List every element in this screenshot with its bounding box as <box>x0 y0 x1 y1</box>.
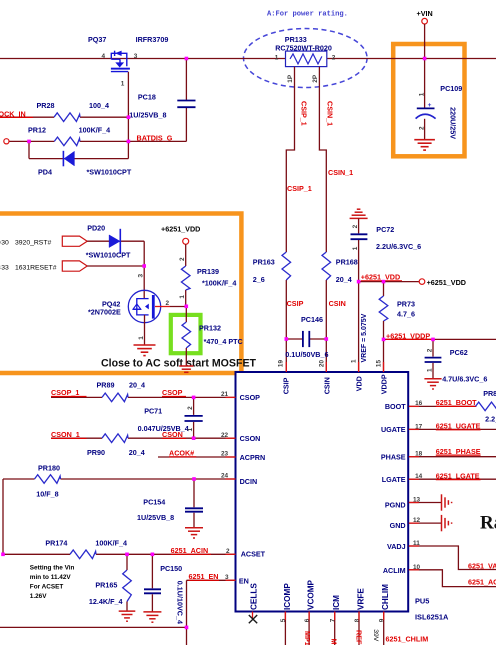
wire CSIP_1 from PR133 pin 1P <box>286 67 294 252</box>
capacitor PC146 <box>286 338 302 340</box>
svg-text:2: 2 <box>187 406 194 410</box>
svg-text:20_4: 20_4 <box>129 381 145 390</box>
capacitor PC72 <box>358 218 360 233</box>
svg-text:2P: 2P <box>312 74 319 83</box>
svg-text:BOOT: BOOT <box>385 402 406 411</box>
resistor PR90 <box>102 434 128 443</box>
wire ACOK# stub y=457 <box>158 456 236 458</box>
wire VCOMP drop x=309.1 <box>308 612 310 645</box>
svg-text:PC109: PC109 <box>440 84 462 93</box>
svg-text:PR168: PR168 <box>336 258 358 267</box>
svg-text:CSIP: CSIP <box>287 299 304 308</box>
svg-text:5: 5 <box>280 618 287 622</box>
dashed blue ellipse around PR133 <box>243 29 367 88</box>
svg-text:2: 2 <box>179 257 186 261</box>
svg-text:12.4K/F_4: 12.4K/F_4 <box>89 597 123 606</box>
svg-text:220U/25V: 220U/25V <box>449 107 458 139</box>
capacitor PC18 <box>177 100 195 102</box>
svg-text:*2N7002E: *2N7002E <box>88 308 121 317</box>
wire +6251_VDD row y=281.6 <box>359 281 420 283</box>
svg-text:CSIN: CSIN <box>322 377 331 394</box>
svg-text:Close to AC soft start MOSFET: Close to AC soft start MOSFET <box>101 358 257 370</box>
svg-text:1: 1 <box>275 55 279 62</box>
svg-text:ICM: ICM <box>332 595 341 610</box>
svg-text:PU5: PU5 <box>415 597 429 606</box>
wire PQ42 gate to PR132 node <box>155 306 170 308</box>
svg-text:CSIP_1: CSIP_1 <box>287 184 312 193</box>
svg-text:19: 19 <box>277 360 284 368</box>
svg-text:+6251_VDD: +6251_VDD <box>427 278 466 287</box>
svg-text:CELLS: CELLS <box>249 583 258 610</box>
svg-text:0.1U/50VB_6: 0.1U/50VB_6 <box>285 350 328 359</box>
svg-text:PR139: PR139 <box>197 267 219 276</box>
svg-text:100K/F_4: 100K/F_4 <box>95 538 127 547</box>
svg-text:0.1U/10VC_4: 0.1U/10VC_4 <box>175 581 184 624</box>
svg-text:2.2_4: 2.2_4 <box>485 414 496 423</box>
svg-text:CSIP_1: CSIP_1 <box>300 101 309 126</box>
svg-text:1: 1 <box>121 81 125 88</box>
wire 6251_ACIN row y=554.3 <box>3 553 70 555</box>
ground (PC72, inverted) <box>350 209 368 218</box>
svg-text:PR180: PR180 <box>38 463 60 472</box>
svg-text:REF: REF <box>355 630 364 645</box>
svg-text:1.26V: 1.26V <box>30 593 47 600</box>
resistor PR168 <box>322 252 331 280</box>
svg-text:3: 3 <box>134 53 138 60</box>
wire PR12 row y=141.4 <box>9 140 54 142</box>
svg-text:PHASE: PHASE <box>381 453 406 462</box>
wire bottom rail y=627.4 <box>0 626 187 628</box>
svg-text:1: 1 <box>179 295 186 299</box>
red pin stubs: IC left <box>226 397 236 580</box>
svg-text:PR163: PR163 <box>253 258 275 267</box>
wire PC18 vertical x=186.4 <box>185 59 187 101</box>
svg-text:M: M <box>330 639 339 645</box>
svg-text:PQ37: PQ37 <box>88 35 106 44</box>
green highlight box around PR132 <box>171 315 201 353</box>
svg-text:CSIP: CSIP <box>281 377 290 394</box>
wire GND stub y=523.1 <box>409 522 442 524</box>
svg-text:15: 15 <box>376 360 383 368</box>
ground (PR165) <box>119 611 136 621</box>
wire CHLIM drop x=383.7 <box>383 612 385 645</box>
diode PD4 <box>62 151 64 167</box>
svg-text:Ra: Ra <box>480 513 496 534</box>
wire PHASE row y=456.7 <box>409 456 496 458</box>
wire UGATE row y=429.4 <box>409 428 496 430</box>
capacitor PC62 <box>432 339 434 356</box>
resistor PR163 <box>282 252 291 280</box>
capacitor PC154 <box>193 479 195 507</box>
resistor PR174 <box>70 550 96 559</box>
resistor PR133 with box <box>286 51 327 67</box>
svg-text:20_4: 20_4 <box>336 275 352 284</box>
svg-text:DCIN: DCIN <box>240 477 258 486</box>
svg-text:6251_ACLIM: 6251_ACLIM <box>468 578 496 587</box>
svg-text:6251_CHLIM: 6251_CHLIM <box>386 635 429 644</box>
svg-text:1: 1 <box>351 359 358 363</box>
wire CSON row y=438.2 <box>51 437 102 439</box>
terminal +6251_VDD (right) <box>419 279 425 285</box>
svg-text:8: 8 <box>354 618 361 622</box>
resistor PR139 <box>181 266 190 290</box>
wire CSOP row y=397.4 <box>51 396 102 398</box>
svg-text:IRFR3709: IRFR3709 <box>136 35 169 44</box>
svg-text:3: 3 <box>138 274 145 278</box>
svg-text:VCOMP: VCOMP <box>307 579 316 610</box>
svg-text:BATDIS_G: BATDIS_G <box>137 133 173 142</box>
svg-text:20: 20 <box>318 360 325 368</box>
ground (PC109) <box>414 140 435 150</box>
svg-text:For ACSET: For ACSET <box>30 583 64 590</box>
wire PQ42 gate drop x=144.2 <box>143 241 145 298</box>
svg-text:VADJ: VADJ <box>387 542 406 551</box>
svg-text:GND: GND <box>390 521 406 530</box>
wire VADJ route <box>409 546 496 570</box>
svg-text:9: 9 <box>379 618 386 622</box>
wire left rail x=3 <box>2 479 4 554</box>
svg-text:2: 2 <box>427 348 434 352</box>
svg-text:PR132: PR132 <box>199 323 221 332</box>
svg-text:20_4: 20_4 <box>129 448 145 457</box>
no-connect X at CELLS pin <box>252 612 254 619</box>
wire LGATE row y=479.2 <box>409 478 496 480</box>
svg-text:3920_RST#: 3920_RST# <box>15 240 51 247</box>
svg-text:6: 6 <box>304 618 311 622</box>
svg-text:PC71: PC71 <box>144 406 162 415</box>
svg-text:6251_VADJ: 6251_VADJ <box>468 561 496 570</box>
svg-text:PC154: PC154 <box>143 497 165 506</box>
resistor PR73 <box>383 282 385 296</box>
transistor PQ42 (2N7002E) <box>128 290 160 322</box>
resistor PR28 <box>54 113 80 122</box>
wire main +VIN rail y=58.5 <box>0 58 496 60</box>
svg-text:PR12: PR12 <box>28 125 46 134</box>
red pin stubs: IC bottom <box>285 612 383 621</box>
svg-text:2_6: 2_6 <box>253 275 265 284</box>
wire PD20 row y=241.2 <box>87 240 144 242</box>
svg-text:PC62: PC62 <box>450 348 468 357</box>
svg-text:100K/F_4: 100K/F_4 <box>79 125 111 134</box>
svg-text:PR133: PR133 <box>285 35 307 44</box>
wire PD4 branch y=158.6 <box>28 141 30 158</box>
svg-text:*470_4 PTC: *470_4 PTC <box>204 337 243 346</box>
wire PQ42 source down <box>144 315 146 345</box>
resistor PR165 <box>126 554 128 570</box>
svg-text:1: 1 <box>138 336 145 340</box>
svg-text:UGATE: UGATE <box>381 425 406 434</box>
wire BOOT row y=406.4 <box>409 405 476 407</box>
svg-text:PR90: PR90 <box>87 448 105 457</box>
svg-text:ICOMP: ICOMP <box>283 583 292 610</box>
svg-text:PR73: PR73 <box>397 300 415 309</box>
svg-text:+VIN: +VIN <box>417 9 433 18</box>
wire ACLIM route <box>409 570 496 587</box>
wire ICM drop x=334.7 <box>334 612 336 645</box>
svg-text:A:For power rating.: A:For power rating. <box>267 11 348 19</box>
wire PQ37 gate vertical x=128.4 <box>127 72 129 159</box>
wire PGND stub y=502.5 <box>409 502 442 504</box>
ground (PC150) <box>143 612 161 622</box>
svg-text:PD20: PD20 <box>87 224 105 233</box>
svg-text:1P: 1P <box>287 74 294 83</box>
svg-text:VDD: VDD <box>355 376 364 391</box>
resistor PR81 (partial) <box>476 402 496 411</box>
op-amp/controller U5 ISL6251A body <box>236 372 409 612</box>
svg-text:30: 30 <box>1 240 9 247</box>
wire PR28 DOCK_IN y=117.2 <box>0 116 54 118</box>
svg-text:7: 7 <box>330 618 337 622</box>
svg-text:CSIN: CSIN <box>329 299 346 308</box>
svg-text:EN: EN <box>239 576 249 585</box>
svg-text:PC150: PC150 <box>160 564 182 573</box>
ground (GND, rotated) <box>442 515 452 531</box>
svg-text:CSON: CSON <box>162 430 183 439</box>
svg-text:ACPRN: ACPRN <box>240 453 266 462</box>
red pin stubs: IC right <box>409 406 419 569</box>
svg-text:PR28: PR28 <box>37 101 55 110</box>
svg-text:*100K/F_4: *100K/F_4 <box>202 279 236 288</box>
svg-text:PC72: PC72 <box>376 225 394 234</box>
svg-text:33: 33 <box>1 265 9 272</box>
wire ICOMP drop x=285.4 <box>284 612 286 645</box>
capacitor PC71 <box>193 397 195 415</box>
svg-text:1U/25VB_8: 1U/25VB_8 <box>137 513 174 522</box>
svg-text:ISL6251A: ISL6251A <box>415 613 449 622</box>
svg-text:4: 4 <box>102 53 106 60</box>
svg-text:CSON: CSON <box>240 434 261 443</box>
svg-text:CSON_1: CSON_1 <box>51 430 80 439</box>
wire VRFE drop x=359 <box>358 612 360 645</box>
ground (PC154) <box>185 528 203 538</box>
wire PR139 column x=185.7 <box>185 244 187 266</box>
svg-text:39V: 39V <box>372 629 379 642</box>
terminal (PR12 left) <box>4 139 9 144</box>
svg-text:6251_ACIN: 6251_ACIN <box>171 546 209 555</box>
svg-text:CSIN_1: CSIN_1 <box>326 101 335 126</box>
resistor PR132 <box>185 306 187 322</box>
ground (PGND, rotated) <box>442 494 452 510</box>
svg-text:CSIN_1: CSIN_1 <box>328 168 353 177</box>
svg-text:RC7520WT-R020: RC7520WT-R020 <box>275 44 332 53</box>
ground (PQ42 source) <box>134 345 156 356</box>
svg-text:CSOP: CSOP <box>240 393 261 402</box>
wire +VIN down <box>424 24 426 108</box>
svg-text:2.2U/6.3VC_6: 2.2U/6.3VC_6 <box>376 242 421 251</box>
wire 1631RESET# row y=266 <box>87 265 144 267</box>
svg-text:2: 2 <box>352 224 359 228</box>
svg-text:PGND: PGND <box>385 500 406 509</box>
diode PD20 <box>109 235 120 248</box>
ground (PC62) <box>424 379 441 389</box>
resistor PR180 <box>35 475 61 484</box>
svg-text:2: 2 <box>166 300 170 307</box>
svg-text:6251_BOOT: 6251_BOOT <box>436 398 477 407</box>
svg-text:1: 1 <box>187 428 194 432</box>
svg-text:1631RESET#: 1631RESET# <box>15 265 57 272</box>
svg-text:PR174: PR174 <box>45 538 67 547</box>
svg-text:ACLIM: ACLIM <box>383 566 406 575</box>
svg-text:PR165: PR165 <box>95 581 117 590</box>
orange highlight box around PC109 <box>393 44 464 156</box>
svg-text:PC18: PC18 <box>138 93 156 102</box>
wire DCIN row y=479 <box>3 478 35 480</box>
wire EN drop x=186.5 <box>186 580 188 645</box>
svg-text:MP1: MP1 <box>303 631 312 645</box>
svg-text:Setting the Vin: Setting the Vin <box>30 564 75 571</box>
wire CSIN_1 from PR133 pin 2P <box>319 67 326 252</box>
wire +6251_VDDP row y=339.4 <box>384 338 496 340</box>
svg-text:PD4: PD4 <box>38 168 52 177</box>
svg-text:VREF = 5.075V: VREF = 5.075V <box>361 313 368 362</box>
svg-text:1: 1 <box>418 92 425 96</box>
svg-text:2: 2 <box>332 55 336 62</box>
svg-text:VRFE: VRFE <box>356 588 365 610</box>
capacitor PC150 <box>151 554 153 588</box>
svg-text:*SW1010CPT: *SW1010CPT <box>87 168 132 177</box>
svg-text:*SW1010CPT: *SW1010CPT <box>86 251 131 260</box>
svg-text:10/F_8: 10/F_8 <box>36 490 58 499</box>
svg-text:PR89: PR89 <box>97 381 115 390</box>
svg-text:6251_EN: 6251_EN <box>189 572 219 581</box>
svg-text:1U/25VB_8: 1U/25VB_8 <box>129 110 166 119</box>
svg-text:LGATE: LGATE <box>382 475 406 484</box>
svg-text:4.7_6: 4.7_6 <box>397 309 415 318</box>
svg-text:CHLIM: CHLIM <box>381 584 390 610</box>
resistor PR12 <box>54 137 80 146</box>
svg-text:min to 11.42V: min to 11.42V <box>30 574 72 581</box>
svg-text:PC146: PC146 <box>301 315 323 324</box>
svg-text:100_4: 100_4 <box>89 101 109 110</box>
ground (PR132) <box>179 366 193 372</box>
svg-text:ACSET: ACSET <box>241 550 266 559</box>
junction node dots (magenta) <box>1 57 435 629</box>
red pin stubs: IC top <box>286 362 383 372</box>
orange highlight box around soft-start circuit (left) <box>0 214 241 374</box>
transistor PQ37 (p-MOSFET) <box>111 51 127 67</box>
resistor PR89 <box>102 393 128 402</box>
svg-text:4.7U/6.3VC_6: 4.7U/6.3VC_6 <box>442 374 487 383</box>
wire 6251_EN row y=580.3 <box>187 579 236 581</box>
svg-text:VDDP: VDDP <box>380 374 389 394</box>
svg-text:+6251_VDD: +6251_VDD <box>161 225 200 234</box>
svg-text:PR81: PR81 <box>483 389 496 398</box>
